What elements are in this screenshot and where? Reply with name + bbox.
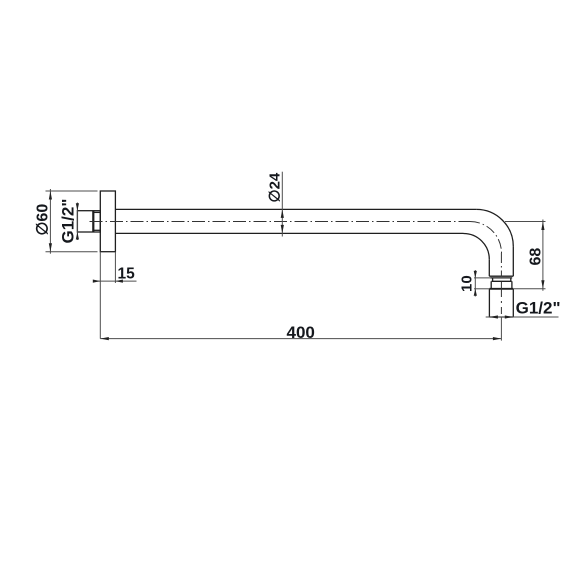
svg-text:∅24: ∅24 — [267, 172, 284, 202]
svg-text:∅60: ∅60 — [35, 204, 52, 236]
svg-text:G1/2": G1/2" — [516, 299, 561, 318]
svg-text:15: 15 — [118, 265, 136, 282]
svg-text:400: 400 — [287, 323, 315, 342]
svg-text:10: 10 — [459, 275, 476, 292]
svg-text:G1/2": G1/2" — [59, 199, 78, 244]
svg-text:68: 68 — [528, 248, 545, 266]
